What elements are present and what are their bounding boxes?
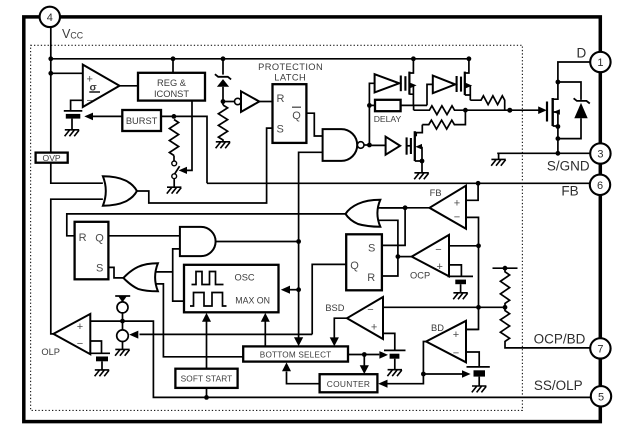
wire gate drive to power FET (arrow) <box>510 106 547 114</box>
wire divider tap to reference bus <box>479 306 506 308</box>
svg-text:S: S <box>96 263 103 275</box>
transistor Q1 power MOSFET <box>547 62 590 127</box>
op-amp U1 startup comparator <box>83 65 120 107</box>
comparator BSD <box>325 297 383 339</box>
diode Db (stage2 gate diode) <box>433 76 457 94</box>
wire FF1 S from OR3 <box>108 267 123 278</box>
svg-text:COUNTER: COUNTER <box>327 379 371 389</box>
wire FF1 Q to AND <box>108 235 179 237</box>
flip-flop FF2 (S Q R) <box>346 234 382 290</box>
wire OCP + input to Cocp <box>449 265 461 277</box>
svg-text:+: + <box>77 321 83 333</box>
zener diode D1 Vcc clamp <box>215 59 231 105</box>
block DELAY <box>369 100 401 124</box>
node NAND output junction <box>367 143 372 148</box>
wire BSD output to BOTTOM SELECT (arrow) <box>330 318 347 346</box>
svg-text:BURST: BURST <box>126 116 158 126</box>
wire NAND output node <box>364 144 369 146</box>
wire OR1 output to latch S <box>137 128 273 203</box>
svg-text:OSC: OSC <box>235 273 255 283</box>
pin 7 OCP/BD terminal <box>590 338 610 358</box>
wire S/GND rail <box>497 153 590 159</box>
node FB tap <box>476 181 481 186</box>
wire AND1 output to bus <box>216 241 299 243</box>
resistor Rb (gate series) <box>470 96 504 110</box>
svg-text:+: + <box>454 197 460 209</box>
pin 4 Vcc terminal <box>40 7 60 27</box>
nand gate U4 driver logic <box>323 129 364 161</box>
svg-text:3: 3 <box>597 149 603 161</box>
svg-text:ICONST: ICONST <box>154 89 189 99</box>
wire OR2 input2 from OCP output <box>379 220 398 256</box>
svg-text:BD: BD <box>431 323 444 333</box>
svg-text:7: 7 <box>597 344 603 356</box>
flip-flop FF1 (R Q S) <box>75 222 109 279</box>
node BD output junction <box>421 372 426 377</box>
svg-text:R: R <box>79 232 87 244</box>
ground G6 <box>491 159 506 165</box>
wire OSC bottom input from BOTTOM SELECT (arrow) <box>261 313 270 347</box>
resistor R3 <box>500 268 509 307</box>
wire node to resistor Ra <box>413 105 415 110</box>
svg-text:6: 6 <box>597 180 603 192</box>
ground G10 <box>95 370 110 376</box>
svg-text:LATCH: LATCH <box>274 73 306 83</box>
node burst-resistor junction <box>172 114 177 119</box>
wire OVP to OR1 input1 <box>51 163 103 184</box>
comparator OLP <box>41 314 90 357</box>
block COUNTER <box>320 374 378 392</box>
svg-text:1: 1 <box>597 57 603 69</box>
node soft-start junction <box>204 395 209 400</box>
svg-text:BSD: BSD <box>325 303 344 313</box>
svg-text:REG &: REG & <box>157 78 187 88</box>
wire REG control to startup switch <box>179 101 192 174</box>
wire BSD + input to Cbs <box>383 333 395 350</box>
wire Vcc rail <box>51 58 469 60</box>
svg-text:FB: FB <box>561 184 578 199</box>
node bottom-select output junction <box>362 352 367 357</box>
resistor Rc (pull-down) <box>422 110 465 129</box>
wire Vcc rail to REG top <box>172 59 174 73</box>
block SOFT START <box>175 369 237 388</box>
node M3 source junction <box>420 159 425 164</box>
svg-text:+: + <box>437 261 443 273</box>
svg-text:5: 5 <box>598 391 604 403</box>
wire SOFT START to SS/OLP net <box>206 388 208 398</box>
svg-text:−: − <box>367 304 373 316</box>
transistor M1 (upper driver FET 1) <box>405 59 416 106</box>
wire OLP + input to SS/OLP net <box>90 321 591 397</box>
wire OR3 input2 from BOTTOM SELECT <box>156 284 243 357</box>
node bus junctions <box>296 239 301 244</box>
ground G9 <box>387 370 402 376</box>
transistor M2 (upper driver FET 2) <box>461 59 472 100</box>
wire BD output <box>423 342 426 375</box>
svg-text:OCP: OCP <box>410 271 430 281</box>
svg-text:DELAY: DELAY <box>374 114 402 124</box>
wire BD output to COUNTER (arrow) <box>378 374 423 388</box>
svg-text:S: S <box>368 242 375 254</box>
wire source to S/GND rail <box>557 127 559 154</box>
inverter U2 latch R driver <box>223 91 273 112</box>
svg-text:−: − <box>77 338 83 350</box>
svg-text:−: − <box>87 95 93 107</box>
svg-text:OLP: OLP <box>41 347 60 357</box>
rail tap bar <box>493 266 518 271</box>
node drain junction <box>556 80 561 85</box>
wire OCP output <box>398 256 412 258</box>
wire BD output arrow into Cbd reset <box>423 370 470 378</box>
wire OR2 output long run to FF1 R <box>67 214 346 236</box>
diode Da (stage1 gate diode) <box>375 74 401 92</box>
block PROTECTION LATCH U3 <box>258 62 323 143</box>
diode Dc (pull-down gate diode) <box>369 137 411 155</box>
wire riser to diode Db <box>427 84 433 105</box>
wire DELAY output node <box>401 104 427 106</box>
wire COUNTER to BOTTOM SELECT (arrow) <box>282 362 320 383</box>
block OSC <box>184 265 279 313</box>
svg-text:S/GND: S/GND <box>547 158 590 173</box>
wire BD + input to reference bus <box>466 328 479 330</box>
wire OCP - input to reference bus <box>449 245 479 247</box>
svg-text:−: − <box>454 212 460 224</box>
svg-text:+: + <box>453 329 459 341</box>
block REG & ICONST <box>138 73 205 101</box>
block OVP <box>36 153 68 163</box>
node Vcc-rail junctions <box>48 56 471 75</box>
wire OR2 input1 from FB output <box>379 207 406 209</box>
svg-text:OVP: OVP <box>43 153 61 163</box>
node current source tap <box>120 319 125 324</box>
wire op-amp + input <box>51 72 83 74</box>
wire FB net pin6 <box>207 182 590 184</box>
capacitor Cbs <box>384 350 406 369</box>
svg-text:S: S <box>277 124 284 136</box>
transistor M3 (pull-down FET) <box>411 125 422 161</box>
wire pin4 down to OVP <box>50 27 52 153</box>
and-gate AND1 <box>180 227 216 256</box>
node DELAY input junction <box>367 103 372 108</box>
wire BOTTOM SELECT to COUNTER (arrow) <box>360 355 369 375</box>
current source CS1 <box>115 296 130 330</box>
wire M3 source to ground <box>421 161 423 173</box>
wire op-amp output to REG <box>120 85 139 87</box>
zener diode D2 avalanche clamp <box>558 82 590 139</box>
svg-text:Q: Q <box>95 232 104 244</box>
capacitor Cocp <box>448 276 474 292</box>
svg-text:SS/OLP: SS/OLP <box>534 378 583 393</box>
wire op-amp - input <box>71 100 83 111</box>
ground G2 <box>216 142 231 148</box>
comparator OCP <box>410 235 449 281</box>
wire BURST to FB line <box>161 116 207 183</box>
capacitor Colp <box>91 353 110 369</box>
inner IC dashed boundary <box>31 45 523 410</box>
svg-text:+: + <box>371 322 377 334</box>
wire OLP - input to Colp <box>90 341 101 353</box>
node OCP output junction <box>396 254 401 259</box>
pin 3 S/GND terminal <box>590 143 610 163</box>
or-gate OR3 (set OR) <box>123 263 157 291</box>
svg-text:−: − <box>453 347 459 359</box>
resistor Ra <box>414 106 510 115</box>
wire FB output to FF2 S input <box>382 208 405 246</box>
wire OR3 input1 to OSC maxon net <box>156 271 172 273</box>
node zener junction <box>221 99 226 104</box>
or-gate OR1 fault OR <box>103 176 137 205</box>
node gate drive junctions <box>463 108 468 113</box>
wire BURST output arrow to C1 node <box>84 113 122 121</box>
wire BSD - input to divider tap <box>383 306 479 308</box>
wire FB comp output <box>381 207 430 209</box>
svg-text:FB: FB <box>430 188 442 198</box>
arrow into Cbs sample <box>379 351 388 359</box>
current source CS2 <box>117 330 129 349</box>
svg-text:OCP/BD: OCP/BD <box>534 332 586 347</box>
ground G1 <box>65 130 80 136</box>
wire AND1 input2 from OSC max-on <box>173 249 184 301</box>
wire OSC bottom input from SOFT START (arrow) <box>202 313 211 369</box>
block BOTTOM SELECT <box>243 346 348 361</box>
svg-text:BOTTOM SELECT: BOTTOM SELECT <box>260 350 332 359</box>
wire OSC sync arrow from bus <box>281 286 299 294</box>
capacitor C1 burst threshold <box>64 111 83 130</box>
pin 6 FB terminal <box>590 175 610 195</box>
wire drive bus (NAND in2 to BOTTOM SELECT) <box>294 152 323 346</box>
node divider tap <box>503 305 508 310</box>
svg-text:Q: Q <box>292 110 301 122</box>
ground G3 <box>167 187 182 193</box>
wire FB comp + input to FB net <box>466 183 478 200</box>
ground G5 <box>414 173 429 179</box>
switch SW1 <box>172 156 180 188</box>
svg-text:D: D <box>577 46 587 61</box>
wire drive control net to CS2 (arrow) <box>129 331 312 339</box>
ground G11 <box>115 349 130 355</box>
comparator BD <box>426 321 466 363</box>
svg-text:SOFT START: SOFT START <box>181 374 233 384</box>
resistor R1 <box>218 105 227 142</box>
wire latch Qbar to NAND input <box>306 113 322 136</box>
svg-text:4: 4 <box>47 12 53 24</box>
resistor R4 <box>500 307 590 348</box>
wire FF2 Q output to long control net <box>312 264 346 334</box>
pin 1 D terminal <box>590 52 610 72</box>
svg-text:R: R <box>367 272 375 284</box>
node FB output junction <box>403 205 408 210</box>
svg-text:−: − <box>435 244 441 256</box>
wire BOTTOM SELECT output right <box>348 354 379 356</box>
svg-text:PROTECTION: PROTECTION <box>258 62 323 72</box>
pin 5 SS/OLP terminal <box>591 386 611 406</box>
capacitor Cbd <box>467 367 490 386</box>
svg-text:Q: Q <box>350 260 359 272</box>
ground G8 <box>472 386 487 392</box>
node source junctions <box>556 124 561 129</box>
wire NAND node up to diode Da / DELAY <box>369 83 374 145</box>
comparator FB <box>430 186 467 229</box>
ground G7 <box>453 293 468 299</box>
wire BD - input to Cbd <box>466 352 479 367</box>
wire FB comp - input reference bus <box>466 217 479 329</box>
block BURST <box>122 110 161 131</box>
svg-text:R: R <box>277 93 285 105</box>
svg-text:MAX ON: MAX ON <box>235 296 270 306</box>
resistor R2 startup <box>169 120 178 156</box>
wire OLP output up to OR1 input2 <box>51 199 103 334</box>
wire FF2 R input from OCP <box>382 257 398 276</box>
or-gate OR2 (reset OR) <box>346 200 381 227</box>
node reference bus junctions <box>476 243 481 248</box>
